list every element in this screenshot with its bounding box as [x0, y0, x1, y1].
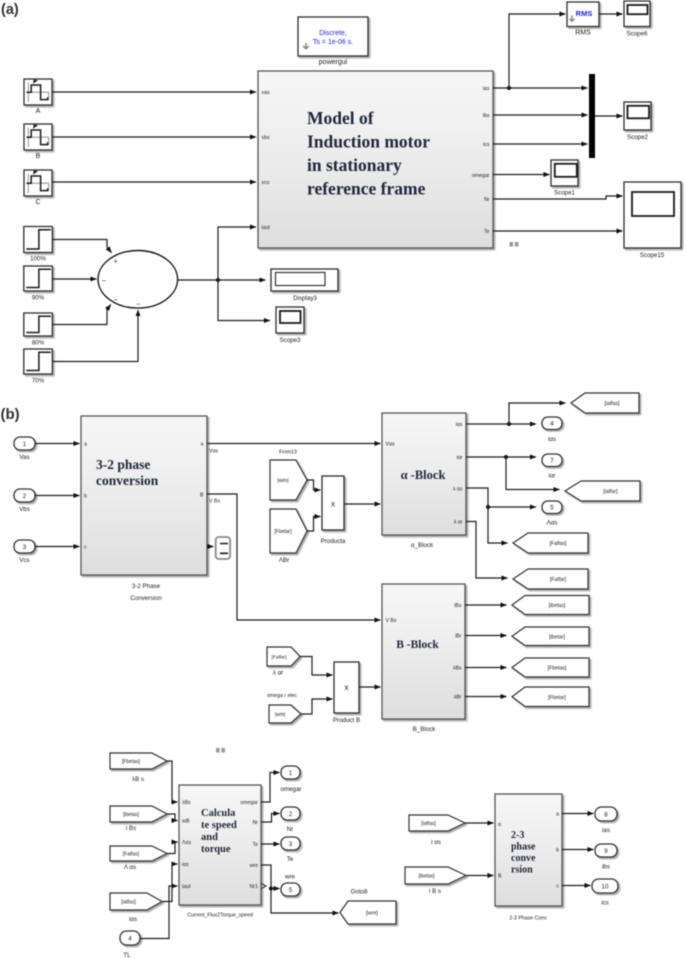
- wire 90% to sum minus: [52, 278, 96, 280]
- wire 100% to sum plus: [52, 240, 111, 253]
- label iBs: [126, 825, 136, 832]
- svg-text:Conversion: Conversion: [130, 595, 162, 602]
- junction sum output: [216, 278, 220, 282]
- svg-text:3-2 Phase: 3-2 Phase: [132, 583, 161, 590]
- wire ics to mux: [493, 143, 588, 145]
- source block B: [24, 124, 52, 160]
- svg-text:Vbs: Vbs: [19, 506, 30, 513]
- svg-text:V Βs: V Βs: [386, 618, 397, 624]
- svg-text:−: −: [136, 302, 140, 309]
- svg-text:Vαs: Vαs: [386, 442, 395, 448]
- outport 5 wre: [281, 883, 300, 896]
- svg-text:Model of: Model of: [307, 108, 374, 128]
- outport 4 ialfas: [542, 417, 562, 443]
- svg-text:V Βs: V Βs: [209, 499, 220, 505]
- svg-text:90%: 90%: [32, 295, 45, 302]
- svg-text:70%: 70%: [32, 378, 45, 385]
- svg-text:RMS: RMS: [575, 30, 591, 37]
- svg-text:iαs: iαs: [548, 436, 556, 443]
- svg-text:a: a: [556, 812, 559, 818]
- wire Nr to outport 2: [261, 814, 280, 823]
- goto tag ibetas: [512, 596, 589, 615]
- scope block Scope1: [551, 160, 578, 197]
- svg-text:8: 8: [604, 811, 608, 818]
- svg-text:(a): (a): [1, 2, 19, 18]
- svg-text:Discrete,: Discrete,: [319, 30, 347, 37]
- mux bar: [589, 74, 595, 158]
- svg-text:3: 3: [23, 544, 27, 551]
- svg-text:[Falfar]: [Falfar]: [272, 655, 287, 661]
- svg-text:[Falfas]: [Falfas]: [123, 852, 140, 858]
- svg-text:Vαs: Vαs: [209, 449, 218, 455]
- svg-text:4: 4: [128, 935, 132, 942]
- goto tag ibetar: [512, 627, 589, 646]
- svg-text:α: α: [498, 822, 501, 828]
- svg-text:omega r elec: omega r elec: [267, 693, 297, 699]
- svg-text:omegar: omegar: [240, 800, 258, 806]
- beta-block subsystem: [382, 584, 465, 733]
- product block Product B: [333, 662, 360, 724]
- svg-text:9: 9: [604, 848, 608, 855]
- svg-text:2-3: 2-3: [511, 830, 524, 841]
- svg-text:x: x: [331, 500, 335, 509]
- wire ialfar output: [466, 456, 536, 458]
- svg-text:λ αr: λ αr: [454, 520, 463, 526]
- svg-text:iαs: iαs: [129, 916, 137, 923]
- svg-text:iαr: iαr: [457, 455, 463, 461]
- label ABr: [279, 557, 289, 564]
- svg-text:λΒr: λΒr: [454, 695, 462, 701]
- label Goto8: [351, 889, 368, 896]
- wire a to outport 8: [562, 813, 594, 815]
- wire Fbetas to calc: [167, 761, 178, 802]
- product block Producta: [321, 476, 346, 545]
- svg-text:torque: torque: [201, 844, 231, 855]
- wire Producta to alpha-block: [345, 503, 381, 505]
- svg-text:[wre]: [wre]: [366, 911, 378, 917]
- induction motor model subsystem: [258, 71, 493, 248]
- wire ialfas to calc: [162, 864, 178, 902]
- svg-text:Current_Flux2Torque_speed: Current_Flux2Torque_speed: [187, 913, 253, 919]
- svg-text:Te: Te: [253, 842, 259, 848]
- wire Fbetar to goto: [465, 696, 507, 698]
- wire 70% to sum minus3: [52, 310, 138, 362]
- wire ibetas to calc: [167, 814, 178, 821]
- svg-text:3: 3: [289, 841, 293, 848]
- svg-text:[Fbetas]: [Fbetas]: [548, 666, 567, 672]
- wire c to outport 10: [562, 885, 591, 887]
- annotation From13: [279, 450, 297, 456]
- from tag wm2: [269, 705, 301, 723]
- goto tag Fbetas: [512, 658, 589, 677]
- svg-text:4: 4: [550, 421, 554, 428]
- svg-text:3-2 phase: 3-2 phase: [96, 457, 150, 472]
- svg-text:omegar: omegar: [281, 786, 302, 793]
- svg-text:2-3 Phase Conv: 2-3 Phase Conv: [509, 916, 547, 922]
- wire junction to goto ialfar: [506, 457, 560, 490]
- svg-text:10: 10: [602, 883, 609, 890]
- wire mux to Scope2: [595, 115, 623, 117]
- svg-text:B: B: [200, 493, 204, 499]
- goto tag Falfar: [513, 569, 588, 589]
- wire Product B to beta-block: [360, 686, 381, 688]
- goto tag wre: [340, 901, 396, 924]
- svg-text:7: 7: [550, 458, 554, 465]
- svg-text:ics: ics: [601, 900, 609, 907]
- wire Vas to 3-2 block: [35, 443, 80, 445]
- wire junction to goto ialfas: [509, 403, 566, 424]
- svg-text:b: b: [84, 494, 87, 500]
- goto tag Fbetar: [512, 687, 589, 707]
- outport 1 omegar: [281, 766, 302, 793]
- svg-text:Scope1: Scope1: [554, 190, 576, 197]
- svg-text:rsion: rsion: [511, 865, 533, 876]
- wire B to vbs: [52, 136, 256, 138]
- wire lambda-alfas output: [466, 488, 536, 507]
- wire Falfar to Product B: [300, 657, 333, 676]
- svg-text:ias: ias: [602, 827, 610, 834]
- wire ias junction to RMS: [509, 14, 566, 88]
- svg-text:|wm|: |wm|: [277, 478, 288, 484]
- svg-text:−: −: [102, 278, 106, 285]
- svg-text:Te: Te: [484, 229, 490, 235]
- wire junction to Scope3: [218, 280, 270, 321]
- svg-text:iαs: iαs: [456, 422, 463, 428]
- svg-text:[ialfas]: [ialfas]: [605, 401, 621, 407]
- label wre: [284, 874, 296, 881]
- from tag Fbetar: [270, 509, 307, 553]
- annotation mark a: [510, 242, 519, 247]
- svg-text:2: 2: [23, 493, 27, 500]
- wire wre to outport 5: [261, 865, 280, 889]
- svg-text:2: 2: [289, 811, 293, 818]
- svg-text:Nr: Nr: [253, 820, 259, 826]
- svg-text:x: x: [345, 683, 349, 692]
- svg-text:vcs: vcs: [262, 180, 270, 186]
- wire c output to terminator: [207, 546, 214, 548]
- calculate speed and torque subsystem: [179, 785, 261, 919]
- svg-text:Scope6: Scope6: [627, 31, 649, 38]
- svg-text:iαs: iαs: [182, 862, 189, 868]
- svg-text:Scope15: Scope15: [640, 252, 665, 259]
- svg-text:Product B: Product B: [333, 717, 360, 724]
- outport 9 ibs: [595, 844, 617, 871]
- svg-text:i Βs: i Βs: [126, 825, 136, 832]
- svg-text:100%: 100%: [30, 256, 46, 263]
- step block 90%: [24, 266, 53, 302]
- svg-text:omegar: omegar: [472, 173, 490, 179]
- svg-text:conve: conve: [511, 853, 536, 864]
- label lambda-alfar: [273, 670, 283, 677]
- wire 80% to sum minus2: [52, 305, 111, 325]
- svg-text:λΒ s: λΒ s: [132, 776, 144, 783]
- from tag ibetas d: [405, 867, 466, 884]
- outport 3 Te: [281, 837, 300, 863]
- wire ibetas to goto: [465, 604, 507, 606]
- svg-text:+: +: [113, 259, 117, 266]
- svg-text:Λαs: Λαs: [182, 840, 191, 846]
- svg-text:wre: wre: [250, 863, 258, 869]
- svg-text:λ αs: λ αs: [453, 487, 463, 493]
- figure label (b): [1, 406, 20, 423]
- svg-text:[ibetas]: [ibetas]: [123, 812, 140, 818]
- inport 1 Vas: [14, 437, 35, 461]
- svg-text:[Falfar]: [Falfar]: [550, 577, 567, 583]
- svg-text:[Fbetar]: [Fbetar]: [274, 529, 292, 535]
- wire ibs to mux: [493, 114, 588, 116]
- svg-text:ibs: ibs: [602, 864, 610, 871]
- scope block Scope2: [624, 102, 651, 141]
- svg-text:[Falfas]: [Falfas]: [549, 541, 567, 547]
- svg-text:Producta: Producta: [321, 538, 346, 545]
- svg-text:conversion: conversion: [96, 473, 159, 488]
- from tag Fbetas c: [110, 753, 167, 769]
- svg-text:TL: TL: [123, 952, 131, 959]
- from tag ialfas c: [110, 893, 162, 910]
- wire wm to Producta: [307, 480, 321, 490]
- junction ialfar: [504, 455, 508, 459]
- wire C to vcs: [52, 181, 256, 183]
- 2-3 phase conversion subsystem: [495, 794, 562, 922]
- wire TL to calc: [140, 886, 178, 939]
- inport 2 Vbs: [14, 489, 35, 513]
- svg-text:[ibetas]: [ibetas]: [549, 603, 566, 609]
- wire omegar to Scope1: [493, 174, 550, 176]
- svg-text:wre: wre: [284, 874, 296, 881]
- svg-text:ics: ics: [483, 142, 490, 148]
- wire ias to mux: [493, 87, 588, 89]
- goto tag Falfas: [513, 533, 588, 553]
- outport 7 ialfar: [542, 454, 562, 480]
- wire ialfas output: [466, 423, 536, 425]
- RMS block: [567, 2, 599, 37]
- svg-text:λ αr: λ αr: [273, 670, 283, 677]
- wire wm2 to Product B: [301, 699, 333, 714]
- svg-text:Induction motor: Induction motor: [307, 132, 430, 152]
- wire ialfas to 2-3 block: [465, 822, 494, 824]
- label i as d: [431, 839, 441, 846]
- svg-text:Scope3: Scope3: [280, 337, 302, 344]
- svg-text:i Β s: i Β s: [429, 888, 441, 895]
- svg-text:i αs: i αs: [431, 839, 441, 846]
- scope block Scope3: [276, 307, 304, 344]
- svg-text:(b): (b): [1, 406, 20, 423]
- svg-text:taul: taul: [182, 884, 190, 890]
- svg-text:ias: ias: [483, 86, 490, 92]
- svg-text:1: 1: [23, 441, 27, 448]
- junction lambda-alfas: [486, 505, 490, 509]
- port label Valfas: [209, 449, 218, 455]
- goto tag ialfas: [571, 393, 639, 413]
- svg-text:C: C: [35, 199, 40, 206]
- svg-text:iΒs: iΒs: [454, 603, 462, 609]
- svg-text:a: a: [201, 442, 204, 448]
- from tag Falfar: [267, 647, 300, 666]
- svg-text:[ialfas]: [ialfas]: [121, 900, 136, 906]
- svg-text:c: c: [84, 545, 87, 551]
- svg-text:a: a: [84, 442, 87, 448]
- svg-text:ibs: ibs: [483, 113, 490, 119]
- svg-text:Β: Β: [498, 874, 502, 880]
- display block Display3: [271, 269, 338, 302]
- step block 100%: [24, 227, 53, 263]
- svg-text:RMS: RMS: [576, 9, 593, 18]
- wire junction to iaut input: [218, 227, 256, 280]
- svg-text:ΛBr: ΛBr: [279, 557, 289, 564]
- svg-text:[ibetas]: [ibetas]: [418, 874, 435, 880]
- wire ibetar to goto: [465, 635, 507, 637]
- svg-text:c: c: [556, 884, 559, 890]
- junction ias: [507, 86, 511, 90]
- svg-text:Calcula: Calcula: [201, 808, 236, 819]
- svg-text:vas: vas: [262, 90, 270, 96]
- wire Vbs to 3-2 block: [35, 495, 80, 497]
- outport 10 ics: [592, 879, 618, 907]
- svg-text:5: 5: [550, 505, 554, 512]
- outport 5 lambda-alfas: [542, 501, 562, 527]
- alpha-block subsystem: [382, 413, 466, 549]
- wire Valfas to alpha-block: [207, 443, 381, 445]
- wire Falfas to calc: [167, 842, 178, 854]
- svg-text:Β_Block: Β_Block: [413, 726, 437, 733]
- label omega r elec: [267, 693, 297, 699]
- svg-text:iΒr: iΒr: [455, 634, 462, 640]
- svg-text:[Fbetas]: [Fbetas]: [122, 759, 141, 765]
- wire Nr to Scope15: [493, 196, 623, 199]
- inport 4 TL: [120, 931, 140, 959]
- svg-text:1: 1: [289, 770, 293, 777]
- svg-text:Ts = 1e-06 s.: Ts = 1e-06 s.: [313, 39, 353, 46]
- powergui block: [298, 17, 368, 66]
- wire wre to Goto8: [271, 889, 339, 914]
- terminator block: [216, 537, 230, 559]
- wire omegar to outport 1: [261, 773, 280, 803]
- svg-text:and: and: [201, 832, 218, 843]
- label i B s d: [429, 888, 441, 895]
- 3-2 phase conversion subsystem: [81, 416, 207, 602]
- wire Vbetas to beta-block: [207, 494, 381, 620]
- wire A to vas: [52, 91, 256, 93]
- svg-text:|wm|: |wm|: [275, 712, 285, 718]
- svg-text:Β -Block: Β -Block: [396, 639, 439, 651]
- svg-text:Scope2: Scope2: [627, 134, 649, 141]
- wire Te to outport 3: [261, 843, 280, 845]
- junction wre: [269, 887, 273, 891]
- wire ibetas to 2-3 block: [466, 875, 494, 877]
- step block 70%: [24, 349, 53, 385]
- outport 8 ias: [595, 807, 617, 834]
- svg-text:A: A: [36, 108, 41, 115]
- svg-text:powergui: powergui: [319, 59, 348, 66]
- inport 3 Vcs: [14, 540, 35, 564]
- junction ialfas: [507, 422, 511, 426]
- svg-text:B: B: [36, 153, 41, 160]
- wire Te to Scope15: [493, 230, 623, 232]
- wire Vcs to 3-2 block: [35, 546, 80, 548]
- svg-text:Vas: Vas: [19, 454, 29, 461]
- svg-text:Vcs: Vcs: [19, 557, 29, 564]
- wire Fbetar to Producta: [307, 517, 321, 532]
- source block A: [24, 79, 52, 115]
- from tag wm: [270, 460, 307, 500]
- goto tag ialfar: [565, 481, 640, 501]
- svg-text:[ialfar]: [ialfar]: [603, 489, 618, 495]
- svg-text:Nr: Nr: [287, 826, 294, 833]
- svg-text:λΒs: λΒs: [182, 800, 191, 806]
- port label Vbetas: [209, 499, 220, 505]
- svg-text:iaut: iaut: [262, 225, 271, 231]
- svg-text:[Fbetar]: [Fbetar]: [548, 695, 566, 701]
- svg-text:−: −: [113, 297, 117, 304]
- label lambda-as: [124, 864, 136, 871]
- step block 80%: [24, 313, 53, 347]
- from tag ialfas d: [409, 815, 465, 831]
- svg-text:iαr: iαr: [548, 473, 555, 480]
- source block C: [24, 170, 52, 206]
- svg-text:[ibetar]: [ibetar]: [549, 634, 565, 640]
- scope block Scope6: [624, 1, 650, 38]
- svg-text:[ialfas]: [ialfas]: [421, 821, 436, 827]
- svg-text:b: b: [556, 848, 559, 854]
- wire junction to goto Falfas: [488, 507, 508, 543]
- svg-text:From13: From13: [279, 450, 297, 456]
- svg-text:in stationary: in stationary: [307, 155, 402, 175]
- svg-text:te speed: te speed: [201, 820, 237, 831]
- wire b to outport 9: [562, 849, 594, 851]
- svg-text:Λαs: Λαs: [547, 520, 558, 527]
- svg-text:80%: 80%: [32, 340, 45, 347]
- wire RMS to Scope6: [599, 13, 623, 15]
- svg-text:phase: phase: [511, 842, 536, 853]
- outport 2 Nr: [281, 807, 300, 833]
- wire sum output to Display3: [178, 279, 266, 281]
- wire lambda-alfar to goto Falfar: [466, 522, 508, 579]
- svg-text:vbs: vbs: [262, 135, 270, 141]
- svg-text:Te: Te: [287, 856, 294, 863]
- from tag Falfas c: [110, 846, 167, 861]
- svg-text:Nr1: Nr1: [250, 884, 258, 890]
- svg-text:5: 5: [289, 887, 293, 894]
- figure label (a): [1, 2, 19, 18]
- svg-text:Display3: Display3: [293, 295, 317, 302]
- svg-text:Goto8: Goto8: [351, 889, 368, 896]
- svg-text:Λ αs: Λ αs: [124, 864, 136, 871]
- svg-text:λΒs: λΒs: [453, 666, 462, 672]
- annotation mark c: [216, 748, 225, 753]
- wire Fbetas to goto: [465, 667, 507, 669]
- from tag ibetas c: [110, 806, 167, 822]
- svg-text:reference frame: reference frame: [307, 179, 426, 199]
- svg-text:α_Block: α_Block: [411, 542, 434, 549]
- sum block: [98, 250, 178, 308]
- label ias c: [129, 916, 137, 923]
- svg-text:Nr: Nr: [484, 197, 490, 203]
- port chevron Nr1: [262, 884, 267, 889]
- label lambda-Bs: [132, 776, 144, 783]
- svg-text:iαΒ: iαΒ: [182, 819, 190, 825]
- scope block Scope15: [624, 182, 681, 259]
- svg-text:α -Block: α -Block: [401, 468, 446, 482]
